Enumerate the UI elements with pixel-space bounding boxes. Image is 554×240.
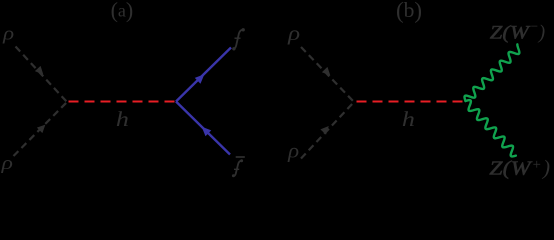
svg-text:ρ: ρ bbox=[287, 23, 300, 45]
fermion line fbar (a): blue, vertex to lower right bbox=[176, 102, 230, 155]
svg-text:ρ: ρ bbox=[0, 153, 13, 174]
arrow on f line (a), pointing away from vertex bbox=[195, 74, 205, 84]
svg-text:Z(W: Z(W bbox=[490, 23, 532, 44]
label f (hand-drawn CM-style italic f) bbox=[232, 28, 245, 50]
svg-text:): ) bbox=[541, 156, 550, 180]
svg-text:+: + bbox=[532, 157, 542, 173]
arrow on bottom rho line (a) bbox=[37, 125, 46, 134]
svg-text:ρ: ρ bbox=[287, 140, 299, 162]
h propagator (b): red dashed line bbox=[357, 101, 464, 103]
rho propagator top (b): gray dashed line bbox=[301, 47, 354, 102]
arrow on fbar line (a), pointing toward vertex bbox=[202, 127, 212, 137]
svg-text:h: h bbox=[402, 107, 415, 131]
svg-text:(a): (a) bbox=[111, 0, 134, 23]
svg-text:(b): (b) bbox=[396, 0, 422, 23]
arrow on top rho line (b) bbox=[322, 67, 330, 76]
svg-text:h: h bbox=[116, 107, 129, 131]
rho propagator bottom (a): gray dashed line bbox=[14, 102, 68, 156]
rho propagator top (a): gray dashed line bbox=[16, 47, 68, 103]
svg-text:): ) bbox=[538, 23, 546, 44]
boson line Z(W+): green wavy, vertex to lower right bbox=[466, 100, 516, 156]
label fbar (hand-drawn italic f with overbar) bbox=[232, 157, 245, 177]
h propagator (a): red dashed line bbox=[69, 101, 176, 103]
fermion line f (a): blue, vertex to upper right bbox=[176, 48, 231, 102]
arrow on bottom rho line (b) bbox=[320, 126, 328, 135]
svg-text:Z(W: Z(W bbox=[489, 157, 533, 179]
rho propagator bottom (b): gray dashed line bbox=[301, 102, 354, 159]
boson line Z(W-): green wavy, vertex to upper right bbox=[464, 44, 519, 101]
arrow on top rho line (a) bbox=[35, 66, 43, 75]
svg-text:−: − bbox=[530, 19, 539, 35]
svg-text:ρ: ρ bbox=[2, 24, 14, 44]
